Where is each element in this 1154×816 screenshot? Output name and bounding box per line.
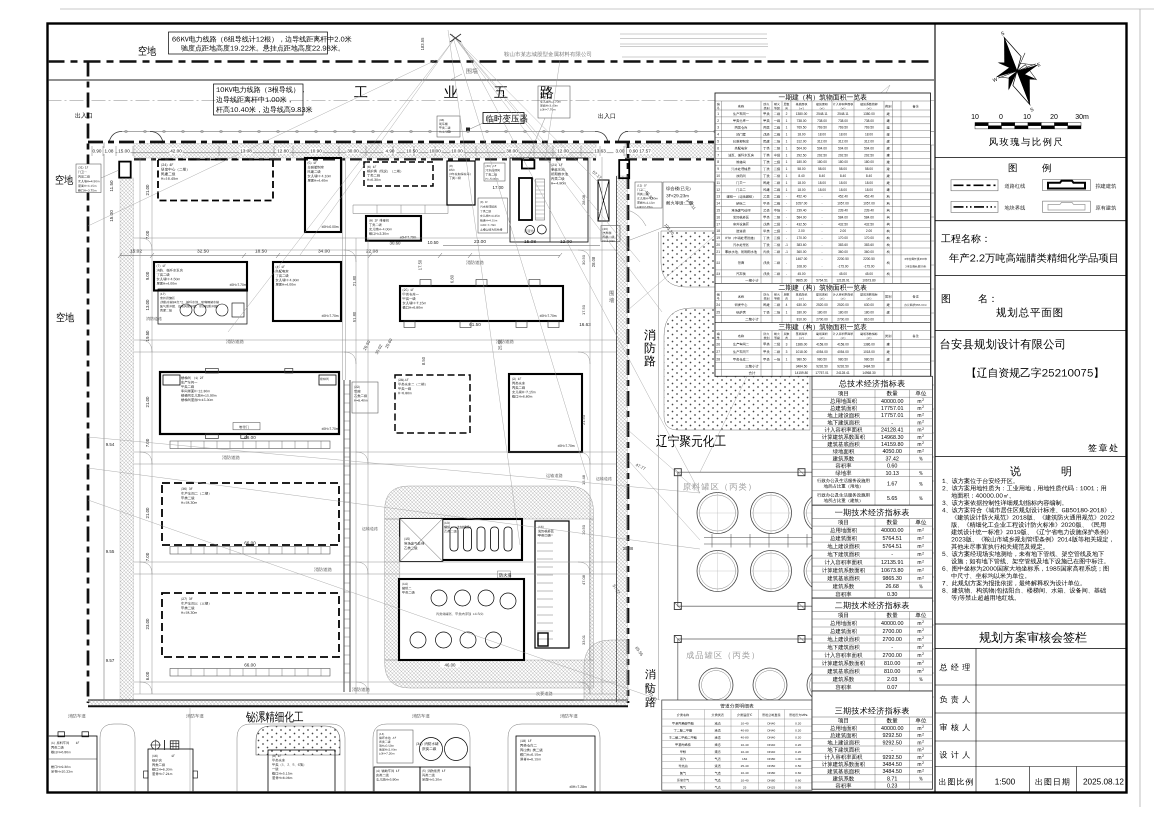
svg-text:21.00: 21.00 — [145, 184, 150, 196]
svg-text:11.50: 11.50 — [109, 180, 114, 192]
road red line (dashed) — [48, 60, 935, 63]
svg-text:4: 4 — [786, 303, 788, 307]
seal label 签章处 — [1088, 443, 1117, 452]
svg-text:DN50: DN50 — [767, 764, 775, 768]
svg-text:0.50: 0.50 — [795, 764, 801, 768]
small pump house — [400, 521, 407, 536]
svg-text:2: 2 — [922, 412, 924, 416]
svg-text:45.00: 45.00 — [798, 272, 806, 276]
fire lane labels bottom — [68, 714, 86, 718]
ladder element — [536, 179, 545, 220]
building 罐组一 — [442, 519, 522, 560]
svg-text:2: 2 — [922, 427, 924, 431]
svg-text:1018.00: 1018.00 — [863, 350, 875, 354]
svg-text:-: - — [821, 222, 822, 226]
svg-text:0.20: 0.20 — [795, 750, 801, 754]
svg-text:292.50: 292.50 — [817, 153, 827, 157]
svg-text:769.50: 769.50 — [864, 126, 874, 130]
svg-text:2520.00: 2520.00 — [837, 303, 849, 307]
svg-text:1: 1 — [786, 133, 788, 137]
svg-text:0.90: 0.90 — [629, 149, 638, 154]
svg-text:2: 2 — [922, 420, 924, 424]
svg-text:m: m — [917, 428, 921, 434]
title panel background — [935, 24, 1127, 793]
svg-text:12135.91: 12135.91 — [836, 279, 850, 283]
svg-text:738.00: 738.00 — [864, 119, 874, 123]
svg-text:4054.00: 4054.00 — [837, 350, 849, 354]
svg-text:18.00: 18.00 — [818, 133, 826, 137]
svg-text:15.00: 15.00 — [118, 149, 130, 154]
building 污水处理间 — [447, 161, 475, 205]
svg-text:1467.00: 1467.00 — [796, 257, 808, 261]
svg-text:1.00: 1.00 — [795, 757, 801, 761]
svg-text:-: - — [786, 202, 787, 206]
svg-text:11: 11 — [717, 181, 721, 185]
svg-text:8.40: 8.40 — [819, 174, 825, 178]
dim frame above 维修间 — [353, 204, 448, 206]
svg-text:±0H=0.00m: ±0H=0.00m — [321, 225, 338, 229]
svg-text:2: 2 — [922, 620, 924, 624]
mid dimension line — [120, 255, 560, 257]
svg-text:66.00: 66.00 — [244, 541, 256, 546]
svg-text:m: m — [917, 637, 921, 643]
svg-text:10.50: 10.50 — [406, 149, 418, 154]
entrance labels — [75, 112, 92, 118]
weighbridge label box — [601, 226, 620, 242]
svg-text:20: 20 — [716, 243, 720, 247]
svg-text:184: 184 — [742, 757, 747, 761]
svg-text:1: 1 — [786, 181, 788, 185]
svg-text:980.50: 980.50 — [838, 358, 848, 362]
svg-text:1: 1 — [786, 160, 788, 164]
svg-text:18.00: 18.00 — [865, 133, 873, 137]
svg-text:23.00: 23.00 — [145, 618, 150, 630]
svg-text:10673.80: 10673.80 — [881, 568, 903, 574]
fence label vertical — [609, 291, 613, 296]
svg-text:17.57: 17.57 — [639, 149, 651, 154]
svg-text:2: 2 — [922, 747, 924, 751]
svg-text:±0H=7.28m: ±0H=7.28m — [569, 785, 587, 789]
dotted oval green — [256, 726, 340, 755]
svg-text:2: 2 — [922, 768, 924, 772]
east road edge — [658, 232, 660, 700]
indicator table 总技术经济指标表 — [812, 376, 932, 505]
svg-text:432.50: 432.50 — [838, 222, 848, 226]
svg-text:DN40: DN40 — [767, 729, 775, 733]
svg-text:10: 10 — [716, 174, 720, 178]
svg-text:1: 1 — [786, 119, 788, 123]
svg-text:-: - — [821, 257, 822, 261]
svg-text:2: 2 — [922, 732, 924, 736]
svg-text:3: 3 — [786, 342, 788, 346]
svg-text:-: - — [786, 229, 787, 233]
svg-text:2: 2 — [786, 112, 788, 116]
wind rose compass — [977, 22, 1056, 122]
building 研发中心 dashed (future) — [158, 160, 273, 201]
building 生产车间二 dashed — [162, 483, 339, 545]
table header — [717, 103, 720, 106]
pipe rack 管廊 — [343, 380, 345, 692]
svg-text:2: 2 — [717, 119, 719, 123]
svg-text:27: 27 — [716, 350, 720, 354]
svg-text:17.50: 17.50 — [581, 304, 586, 315]
svg-text:0.60: 0.60 — [795, 771, 801, 775]
svg-text:810.00: 810.00 — [884, 669, 901, 675]
svg-text:9292.50: 9292.50 — [882, 733, 902, 739]
svg-text:4.90: 4.90 — [386, 149, 395, 154]
svg-text:10.50: 10.50 — [428, 240, 440, 245]
svg-text:980.50: 980.50 — [864, 358, 874, 362]
svg-text:5.65: 5.65 — [887, 496, 898, 502]
svg-text:17.50: 17.50 — [418, 259, 423, 270]
table title 二期建（构）筑物面积一览表 — [779, 284, 867, 291]
bottom row 出图比例/日期 — [1029, 767, 1031, 793]
svg-text:30m: 30m — [1075, 114, 1089, 121]
building 丙类仓库 — [509, 374, 582, 452]
svg-text:8: 8 — [717, 160, 719, 164]
svg-text:2200.50: 2200.50 — [863, 257, 875, 261]
svg-text:30.00: 30.00 — [347, 149, 359, 154]
svg-text:2548.11: 2548.11 — [816, 112, 828, 116]
drawing name 规划总平面图 — [996, 307, 1062, 317]
svg-text:m: m — [917, 755, 921, 761]
svg-text:239.40: 239.40 — [797, 209, 807, 213]
svg-text:1.67: 1.67 — [887, 482, 898, 488]
svg-text:33.01: 33.01 — [581, 634, 586, 645]
legend heading 图例 — [1009, 164, 1017, 173]
svg-text:10-40: 10-40 — [741, 771, 749, 775]
svg-text:2700.00: 2700.00 — [882, 653, 902, 659]
fire tanks bottom — [420, 738, 443, 761]
svg-text:m: m — [917, 568, 921, 574]
svg-text:-: - — [786, 209, 787, 213]
svg-text:18.00: 18.00 — [798, 188, 806, 192]
svg-text:32.50: 32.50 — [197, 249, 209, 255]
svg-text:m: m — [917, 528, 921, 534]
rail lines top right — [620, 33, 767, 35]
svg-text:180.00: 180.00 — [864, 311, 874, 315]
svg-text:13.63: 13.63 — [594, 149, 606, 154]
svg-text:2025.08.12: 2025.08.12 — [1083, 778, 1124, 787]
svg-text:24: 24 — [716, 303, 720, 307]
dotted green area 1 — [661, 231, 810, 287]
svg-text:21.50: 21.50 — [581, 414, 586, 425]
svg-text:±0H=7.70m: ±0H=7.70m — [229, 283, 246, 287]
svg-text:180.00: 180.00 — [817, 311, 827, 315]
svg-text:2: 2 — [922, 644, 924, 648]
svg-text:18.00: 18.00 — [839, 188, 847, 192]
caption 风玫瑰与比例尺 — [989, 137, 1062, 146]
svg-text:980.50: 980.50 — [817, 358, 827, 362]
road between halls 1-2 — [134, 451, 616, 453]
svg-text:19: 19 — [716, 236, 720, 240]
project name — [949, 253, 1117, 263]
svg-text:10-40: 10-40 — [741, 750, 749, 754]
svg-text:26.68: 26.68 — [885, 584, 899, 590]
svg-text:DN80: DN80 — [767, 778, 775, 782]
building 辅助车间 — [374, 767, 420, 793]
road centerline — [48, 100, 935, 102]
road labels near compound — [546, 474, 563, 478]
svg-text:1: 1 — [786, 140, 788, 144]
svg-text:2: 2 — [922, 567, 924, 571]
building 高配电室 — [273, 262, 341, 321]
svg-text:180.00: 180.00 — [817, 160, 827, 164]
svg-text:383.60: 383.60 — [838, 243, 848, 247]
tanks row2 — [697, 551, 738, 592]
building 锅炉房现况 dashed — [364, 162, 433, 186]
signature table — [935, 648, 1127, 650]
svg-text:12.80: 12.80 — [277, 149, 289, 154]
svg-text:1: 1 — [786, 126, 788, 130]
svg-text:66.00: 66.00 — [244, 435, 256, 440]
svg-text:0.23: 0.23 — [887, 784, 898, 790]
indicator table 一期技术经济指标表 — [812, 505, 932, 598]
svg-text:504.00: 504.00 — [817, 146, 827, 150]
svg-text:8.40: 8.40 — [866, 174, 872, 178]
top dimension numbers — [91, 148, 104, 154]
svg-text:m: m — [917, 669, 921, 675]
svg-text:-: - — [821, 229, 822, 233]
svg-text:30.60: 30.60 — [390, 241, 402, 246]
svg-text:239.40: 239.40 — [838, 209, 848, 213]
svg-text:3: 3 — [786, 350, 788, 354]
fold line right — [1139, 9, 1141, 807]
svg-text:±0H=7.70m: ±0H=7.70m — [400, 236, 417, 240]
svg-text:360.00: 360.00 — [797, 250, 807, 254]
road south strip — [134, 681, 616, 683]
west outer road line — [103, 143, 105, 701]
svg-text:4054.00: 4054.00 — [816, 350, 828, 354]
fence label — [466, 68, 477, 74]
svg-text:1057.00: 1057.00 — [863, 202, 875, 206]
east wall hatch band — [617, 176, 628, 702]
indicator table 三期技术经济指标表 — [812, 691, 932, 789]
label box 门卫二 — [635, 182, 662, 208]
10KV note box — [214, 84, 304, 115]
svg-text:m: m — [917, 435, 921, 441]
svg-text:DN80: DN80 — [767, 771, 775, 775]
svg-text:m: m — [917, 560, 921, 566]
svg-text:m: m — [917, 733, 921, 739]
svg-text:2.03: 2.03 — [887, 677, 898, 683]
neighbor company 辽宁聚元化工 — [656, 434, 725, 447]
svg-text:DN25: DN25 — [767, 785, 775, 789]
bottom strip road curves — [100, 724, 600, 793]
section divider drawing name — [935, 275, 1127, 277]
svg-text:738.00: 738.00 — [817, 119, 827, 123]
building 生产车间三 dashed — [162, 593, 339, 657]
svg-text:45.00: 45.00 — [865, 272, 873, 276]
svg-text:2: 2 — [922, 551, 924, 555]
road name 工业五路 — [354, 86, 367, 97]
svg-text:2: 2 — [922, 761, 924, 765]
svg-text:170.00: 170.00 — [838, 236, 848, 240]
vacant land label left 2 — [57, 312, 75, 322]
svg-text:8.50: 8.50 — [421, 356, 426, 365]
svg-text:10.00: 10.00 — [429, 149, 441, 154]
svg-text:1: 1 — [786, 311, 788, 315]
svg-text:9292.50: 9292.50 — [837, 365, 849, 369]
section divider project — [935, 220, 1127, 222]
tank farm 原料罐区 boundary — [678, 472, 906, 606]
svg-text:m: m — [917, 762, 921, 768]
svg-text:2700.00: 2700.00 — [882, 629, 902, 635]
building 锅炉房 bottom — [148, 749, 193, 793]
svg-text:738.00: 738.00 — [838, 119, 848, 123]
svg-text:312.00: 312.00 — [864, 140, 874, 144]
svg-text:m: m — [917, 442, 921, 448]
svg-text:584.00: 584.00 — [797, 215, 807, 219]
svg-text:1: 1 — [786, 167, 788, 171]
road between halls 2-3 — [134, 561, 616, 563]
vertical road east — [589, 157, 591, 694]
panel divider — [934, 24, 936, 793]
svg-text:0.20: 0.20 — [795, 736, 801, 740]
svg-text:21.80: 21.80 — [352, 275, 357, 286]
svg-text:14: 14 — [716, 202, 720, 206]
svg-text:m: m — [917, 661, 921, 667]
svg-text:2: 2 — [922, 628, 924, 632]
section divider signature — [935, 623, 1127, 625]
svg-text:-: - — [821, 215, 822, 219]
svg-text:m: m — [917, 769, 921, 775]
warehouse roof bumps — [420, 280, 431, 287]
svg-text:24128.41: 24128.41 — [881, 428, 903, 434]
svg-text:183.55: 183.55 — [420, 37, 425, 50]
svg-text:0.07: 0.07 — [887, 685, 898, 691]
label 堆场废气处理 — [404, 538, 410, 541]
svg-text:2700.00: 2700.00 — [882, 637, 902, 643]
south hatch band — [88, 701, 628, 706]
drawing label 图名 — [942, 294, 950, 303]
svg-text:2: 2 — [922, 543, 924, 547]
svg-text:5: 5 — [717, 140, 719, 144]
svg-text:769.50: 769.50 — [838, 126, 848, 130]
svg-text:292.50: 292.50 — [797, 153, 807, 157]
building 丙类仓库二 — [516, 736, 595, 793]
svg-text:23.00: 23.00 — [474, 239, 486, 245]
svg-text:2: 2 — [922, 398, 924, 402]
license number — [973, 367, 1098, 378]
svg-text:432.50: 432.50 — [797, 222, 807, 226]
svg-text:4158.00: 4158.00 — [837, 342, 849, 346]
svg-text:m: m — [917, 536, 921, 542]
svg-text:10.00: 10.00 — [451, 149, 463, 154]
svg-text:18.00: 18.00 — [839, 133, 847, 137]
svg-text:1386.00: 1386.00 — [863, 342, 875, 346]
svg-text:±0H=7.70m: ±0H=7.70m — [557, 444, 574, 448]
pipe line between tank rows — [704, 537, 900, 539]
diagonal survey lines — [88, 30, 890, 700]
svg-text:51.80: 51.80 — [352, 311, 357, 322]
svg-text:16.63: 16.63 — [579, 322, 591, 327]
svg-text:m: m — [917, 413, 921, 419]
svg-text:26: 26 — [716, 342, 720, 346]
legend existing building — [1043, 201, 1091, 212]
table header — [717, 293, 720, 296]
vacant land label top — [139, 46, 157, 56]
svg-text:2: 2 — [922, 725, 924, 729]
svg-text:0.60: 0.60 — [887, 464, 898, 470]
svg-text:-: - — [891, 748, 893, 754]
svg-text:40000.00: 40000.00 — [881, 621, 903, 627]
svg-text:9.57: 9.57 — [106, 658, 115, 663]
svg-text:±0H=7.70m: ±0H=7.70m — [321, 314, 338, 318]
svg-text:0.30: 0.30 — [887, 592, 898, 598]
svg-text:1057.00: 1057.00 — [796, 202, 808, 206]
loading rack 装卸栈桥区 — [535, 521, 569, 648]
notes heading 说明 — [1010, 466, 1021, 477]
svg-text:6.80: 6.80 — [449, 274, 454, 283]
label box west 门卫一 — [76, 164, 101, 193]
svg-text:m: m — [917, 449, 921, 455]
svg-text:504.00: 504.00 — [864, 146, 874, 150]
entrance flare arcs west — [109, 132, 122, 143]
svg-text:40000.00: 40000.00 — [881, 528, 903, 534]
svg-text:-: - — [891, 552, 893, 558]
svg-text:9865.30: 9865.30 — [796, 279, 808, 283]
svg-text:-175.00: -175.00 — [864, 264, 875, 268]
svg-text:504.00: 504.00 — [838, 146, 848, 150]
svg-text:108.00: 108.00 — [797, 264, 807, 268]
firewall label 防火堤 — [498, 571, 511, 578]
crossed rect 栈台 — [598, 180, 609, 221]
svg-text:452.40: 452.40 — [838, 195, 848, 199]
svg-text:312.00: 312.00 — [838, 140, 848, 144]
svg-text:3.00: 3.00 — [616, 149, 625, 154]
vacant land label left — [56, 175, 74, 185]
label box 综合楼 — [663, 182, 714, 227]
svg-text:9.55: 9.55 — [106, 549, 115, 554]
svg-text:17: 17 — [716, 222, 720, 226]
svg-text:810.00: 810.00 — [884, 661, 901, 667]
svg-text:58.00: 58.00 — [798, 167, 806, 171]
svg-text:1: 1 — [717, 112, 719, 116]
label box 循环水池 — [377, 730, 413, 763]
pipe table 管道分类明细表 — [662, 700, 812, 790]
svg-text:-: - — [786, 236, 787, 240]
svg-text:m: m — [917, 621, 921, 627]
svg-text:10-40: 10-40 — [741, 778, 749, 782]
svg-text:432.50: 432.50 — [864, 222, 874, 226]
svg-text:7: 7 — [717, 153, 719, 157]
svg-text:12: 12 — [716, 188, 720, 192]
svg-text:25.88: 25.88 — [623, 546, 634, 551]
svg-text:-: - — [786, 222, 787, 226]
svg-text:584.00: 584.00 — [838, 215, 848, 219]
compound divider — [549, 158, 551, 242]
svg-text:m: m — [917, 740, 921, 746]
area tables background — [715, 93, 931, 376]
svg-text:630.00: 630.00 — [797, 303, 807, 307]
gatehouse NW 门卫一 — [119, 162, 131, 178]
svg-text:-1: -1 — [785, 250, 788, 254]
svg-text:810.00: 810.00 — [864, 318, 874, 322]
svg-text:3484.50: 3484.50 — [882, 762, 902, 768]
svg-text:2: 2 — [922, 448, 924, 452]
svg-text:18.00: 18.00 — [865, 181, 873, 185]
section divider company — [935, 330, 1127, 332]
svg-text:m: m — [917, 726, 921, 732]
svg-text:18: 18 — [716, 229, 720, 233]
building 维修间 — [366, 216, 421, 241]
table title 三期建（构）筑物面积一览表 — [779, 324, 867, 331]
fire road label east upper — [644, 329, 655, 340]
svg-text:m: m — [917, 629, 921, 635]
svg-text:2700.00: 2700.00 — [816, 318, 828, 322]
svg-text:m: m — [917, 399, 921, 405]
